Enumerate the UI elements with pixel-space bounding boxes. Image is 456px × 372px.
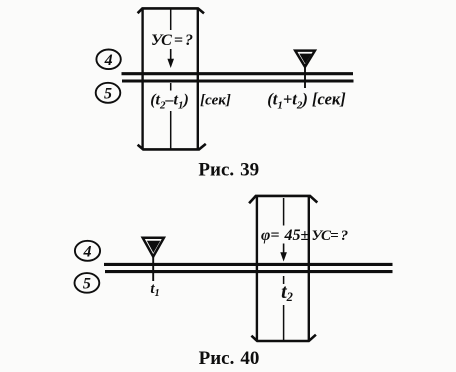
svg-text:4: 4 <box>104 52 113 69</box>
signal head outer triangle (Fig.39) <box>295 51 315 67</box>
svg-text:УС= ?: УС= ? <box>312 228 348 244</box>
svg-text:4: 4 <box>83 244 92 261</box>
centre line upper segment (Fig.39) <box>170 9 172 30</box>
signal head inner filled triangle (Fig.39) <box>299 54 312 64</box>
track number circle 5 (Fig.40) <box>75 273 100 293</box>
track number circle 5 (Fig.39) <box>96 83 121 103</box>
track line 5 (Fig.40) <box>105 270 393 273</box>
svg-text:5: 5 <box>83 276 91 293</box>
centre line lower segment (Fig.39) <box>170 111 172 149</box>
svg-text:Рис.39: Рис.39 <box>198 160 259 181</box>
svg-text:φ=: φ= <box>261 227 279 244</box>
signal head outer triangle (Fig.40) <box>143 238 164 257</box>
track line 5 (Fig.39) <box>122 79 354 82</box>
track number circle 4 (Fig.39) <box>96 50 120 70</box>
centre line tick below track (Fig.39) <box>170 83 172 91</box>
svg-text:45±: 45± <box>284 227 310 244</box>
block-section bracket left vertical (Fig.40) <box>256 196 258 341</box>
block-section bracket top bar (Fig.40) <box>249 196 317 203</box>
arrow to track (Fig.40) <box>283 244 285 257</box>
track line 4 (Fig.40) <box>104 263 393 266</box>
svg-text:5: 5 <box>104 86 112 103</box>
signal mast (Fig.40) <box>152 254 154 281</box>
track number circle 4 (Fig.40) <box>75 241 100 261</box>
block-section bracket left vertical (Fig.39) <box>141 8 143 150</box>
svg-text:[сек]: [сек] <box>200 93 231 109</box>
block-section bracket right vertical (Fig.39) <box>197 8 199 150</box>
track line 4 (Fig.39) <box>122 72 354 75</box>
arrow to track (Fig.39) <box>170 49 172 63</box>
centre line lower segment (Fig.40) <box>283 305 285 340</box>
signal mast (Fig.39) <box>304 64 306 88</box>
centre line tick below track (Fig.40) <box>283 276 285 284</box>
block-section bracket right vertical (Fig.40) <box>308 196 310 341</box>
signal head inner filled triangle (Fig.40) <box>147 241 160 253</box>
svg-text:Рис.40: Рис.40 <box>199 348 260 369</box>
block-section bracket bottom bar (Fig.40) <box>251 335 316 341</box>
centre line upper segment (Fig.40) <box>283 198 285 226</box>
block-section bracket bottom bar (Fig.39) <box>138 144 206 150</box>
svg-text:УС = ?: УС = ? <box>151 32 193 49</box>
block-section bracket top bar (Fig.39) <box>138 8 204 13</box>
